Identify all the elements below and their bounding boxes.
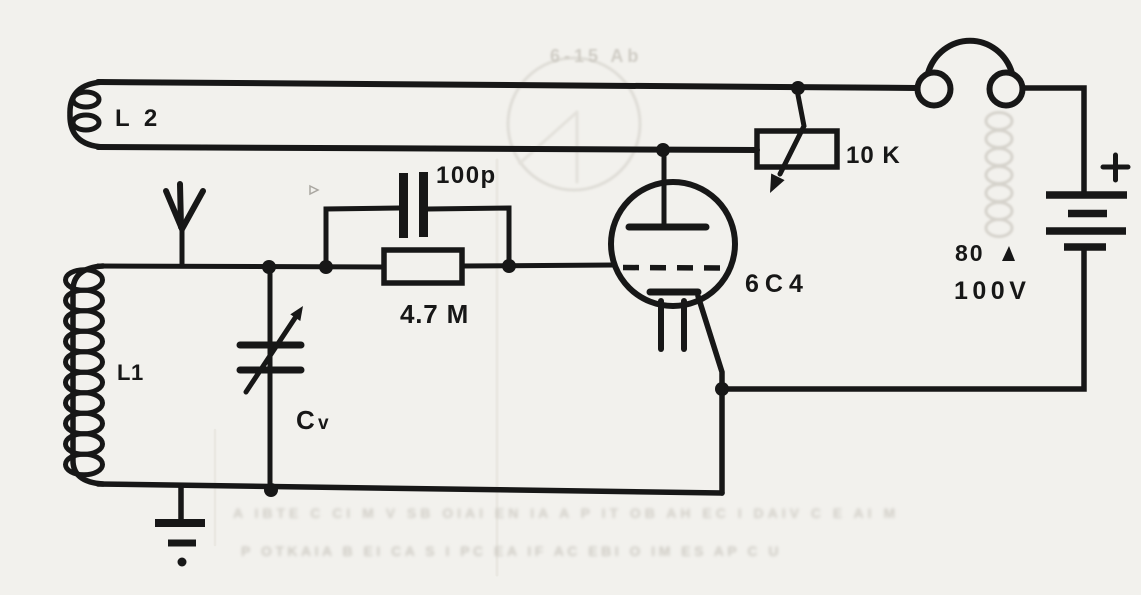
- junction dot cathode node: [715, 382, 729, 396]
- junction dot grid-cap left: [319, 260, 333, 274]
- wire battery - to cathode node: [722, 250, 1084, 389]
- svg-text:6-15 Ab: 6-15 Ab: [550, 46, 642, 66]
- ground: [155, 487, 205, 567]
- coil L1: [66, 266, 104, 484]
- svg-text:10 K: 10 K: [846, 142, 901, 169]
- cathode of V1: [650, 289, 698, 296]
- plate of V1: [629, 150, 706, 227]
- grid of V1: [623, 265, 721, 271]
- wire bottom rail: [98, 484, 722, 493]
- headphones: [918, 41, 1023, 106]
- label + battery positive: [1103, 155, 1128, 180]
- junction dot Cv bottom: [264, 483, 278, 497]
- svg-text:C: C: [296, 405, 315, 435]
- potentiometer wiper arrow: [770, 95, 804, 193]
- wire L2 top to headphones (B+ line): [98, 82, 917, 88]
- svg-text:6C4: 6C4: [745, 270, 809, 298]
- antenna: [166, 184, 203, 266]
- svg-text:100p: 100p: [436, 162, 497, 189]
- battery B1: [1046, 195, 1127, 247]
- capacitor Cv variable: [240, 267, 303, 490]
- wire grid capacitor left branch: [326, 208, 399, 266]
- svg-text:L1: L1: [117, 360, 144, 385]
- label 80 ohm: [955, 240, 1015, 266]
- svg-text:L 2: L 2: [115, 105, 161, 132]
- tube V1 6C4 envelope: [611, 182, 735, 306]
- wire grid rail right segment: [462, 265, 614, 266]
- wire headphones to battery +: [1023, 88, 1084, 192]
- svg-text:4.7 M: 4.7 M: [400, 299, 469, 329]
- svg-text:P OTKAIA B EI CA S I PC: P OTKAIA B EI CA S I PC EA IF AC EBI O I…: [241, 543, 782, 559]
- wire grid capacitor right branch: [428, 208, 509, 266]
- junction dot Cv top: [262, 260, 276, 274]
- resistor R1 4.7M: [384, 250, 462, 283]
- heater pins of V1: [661, 301, 684, 349]
- capacitor C1 100p plates: [404, 172, 424, 238]
- label Cv: [296, 405, 329, 435]
- svg-text:v: v: [318, 413, 329, 434]
- wire grid rail left segment: [98, 266, 384, 267]
- wire L2 bottom tickler rail to potentiometer: [98, 147, 757, 150]
- potentiometer R2 10K body: [757, 131, 837, 167]
- coil L2: [70, 82, 103, 147]
- svg-text:100V: 100V: [954, 277, 1030, 305]
- svg-text:A IBTE C CI M V SB OIAI EN: A IBTE C CI M V SB OIAI EN IA A P IT OB …: [233, 505, 899, 521]
- junction dot wiper tap on B+ line: [791, 81, 805, 95]
- junction dot grid-cap right: [502, 259, 516, 273]
- wire cathode lead to bottom rail: [698, 296, 722, 493]
- svg-text:80: 80: [955, 240, 985, 266]
- junction dot plate tap on tickler rail: [656, 143, 670, 157]
